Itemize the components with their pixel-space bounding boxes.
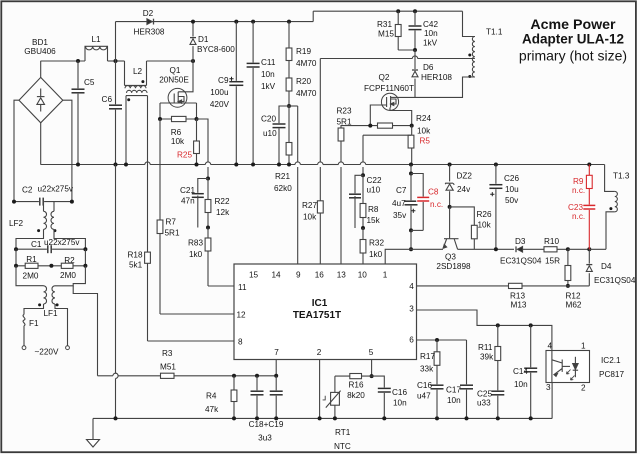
svg-text:2: 2 [317,348,322,357]
svg-text:n.c.: n.c. [572,212,585,221]
node sense chain bottom right [361,226,365,230]
svg-text:2SD1898: 2SD1898 [436,262,471,271]
node R12 top [566,247,570,251]
wire C6 line down to bottom ground rail [115,165,117,374]
wire T1.1 bottom lead to Q2 drain [397,77,475,97]
svg-text:LF1: LF1 [44,309,59,318]
svg-text:C14: C14 [513,367,528,376]
svg-text:u22x275v: u22x275v [38,185,74,194]
svg-text:BD1: BD1 [32,38,48,47]
capacitor C17 10n [466,340,468,418]
svg-text:R31: R31 [377,20,392,29]
svg-text:u33: u33 [477,399,491,408]
svg-text:Q1: Q1 [170,66,181,75]
polarity dot L2 top [141,80,144,83]
zener DZ2 24v [448,163,452,167]
Q2 mosfet symbol [381,93,398,110]
wire R83 to IC pin 11 [208,285,234,287]
wire R18 to IC pin 8 [147,263,149,341]
svg-text:1kV: 1kV [423,39,438,48]
svg-text:C25: C25 [477,390,492,399]
diode D6 HER108 [414,50,416,97]
svg-text:10k: 10k [171,137,185,146]
svg-text:C8: C8 [428,188,439,197]
wire bridge left AC lead [14,100,19,201]
wire Q1 drain entry [178,61,193,92]
wire HV rail y=21.6 D2 to step [116,21,314,23]
svg-text:R16: R16 [348,381,363,390]
svg-text:IC1: IC1 [312,298,328,309]
svg-text:D1: D1 [198,35,209,44]
inductor L1 [85,46,108,61]
choke L2 bottom winding [126,95,148,97]
polarity dot LF2 left [37,229,40,232]
svg-text:C23: C23 [568,203,583,212]
wire IC pin5 riser [371,360,373,377]
svg-text:R83: R83 [188,239,203,248]
wire L2 bottom-right lead down through R18 to pin 8 [147,96,149,253]
svg-text:NTC: NTC [334,442,351,451]
svg-text:9: 9 [296,271,301,280]
resistor R6 10k [160,118,197,120]
svg-text:4M70: 4M70 [296,59,317,68]
svg-text:R7: R7 [166,218,177,227]
capacitor C1 u22x275v [16,248,85,250]
svg-text:D2: D2 [143,9,154,18]
svg-text:35v: 35v [393,211,407,220]
svg-text:47k: 47k [205,405,219,414]
polarity dot T1.1 lower [468,75,471,78]
svg-text:C26: C26 [504,174,519,183]
svg-text:T1.3: T1.3 [613,172,630,181]
resistor R26 10k [450,207,475,249]
capacitor C16 10n [372,376,385,418]
svg-text:14: 14 [271,271,281,280]
wire LF1 left bottom to fuse [24,304,44,315]
fuse F1 [23,315,25,326]
wire y=61 bridge to Q1 drain node [41,60,86,62]
svg-text:D4: D4 [601,262,612,271]
svg-text:5: 5 [369,348,374,357]
opto phototransistor [561,360,563,372]
capacitor C8 n.c. [411,174,423,231]
wire left rail down to LF1 [16,266,44,286]
wire opto pin4 pin3 line [551,351,553,383]
resistor R24 10k [370,125,411,127]
wire T1.1 tap to x=320 riser [320,58,412,60]
resistor R23 5R1 [341,126,370,128]
svg-text:R4: R4 [206,392,217,401]
resistor R22 12k [207,179,209,228]
svg-text:100u: 100u [210,88,229,97]
svg-text:R19: R19 [296,47,311,56]
resistor R21 62k0 [288,106,290,165]
IC U1 TEA1751T box [234,264,417,360]
svg-text:R24: R24 [416,114,431,123]
polarity dot T1.1 upper [468,54,471,57]
svg-text:33k: 33k [420,365,434,374]
svg-text:M13: M13 [511,301,527,310]
svg-text:4: 4 [548,342,553,351]
wire primary ground bus y=164.5 [41,164,145,166]
choke LF2 [43,202,45,212]
wire Q2 gate [370,105,386,126]
capacitor C42 10n 1kV [414,11,416,50]
resistor R5 shunt [411,126,413,165]
wire T1.1 top lead [463,11,475,36]
svg-text:12: 12 [237,311,247,320]
wire F1 to terminal [23,326,25,346]
svg-text:R12: R12 [566,292,581,301]
resistor R16 8k20 [335,375,372,377]
resistor R19 4M70 [287,20,291,24]
svg-text:C6: C6 [102,95,113,104]
svg-text:L2: L2 [133,67,143,76]
svg-text:HER108: HER108 [421,73,452,82]
svg-text:RT1: RT1 [335,428,351,437]
wire bridge right AC lead [63,100,72,201]
svg-text:62k0: 62k0 [274,184,292,193]
resistor R7 5R1 gate line [159,119,161,314]
svg-text:R17: R17 [420,352,435,361]
wire right rail C1 to R1 row [84,249,86,266]
wire D2 branch riser x=115.5 [115,22,117,61]
svg-text:5R1: 5R1 [165,229,180,238]
svg-text:T1.1: T1.1 [486,28,503,37]
capacitor C16 u47 [430,384,445,389]
svg-text:u10: u10 [367,186,381,195]
wire node to IC pin 9 [289,105,298,107]
svg-text:10k: 10k [303,213,317,222]
svg-text:10n: 10n [424,29,438,38]
wire LF1 right bottom to terminal [55,304,68,346]
svg-text:50v: 50v [505,196,519,205]
polarity dot L2 bottom [127,98,130,101]
svg-text:D3: D3 [515,237,526,246]
svg-text:1k0: 1k0 [189,250,203,259]
svg-text:C11: C11 [261,58,276,67]
svg-text:3u3: 3u3 [258,434,272,443]
svg-text:13: 13 [337,271,347,280]
svg-text:15: 15 [249,271,259,280]
wire IC pin4 feedback rail [417,285,590,287]
wire gate line to IC pin 12 [160,313,234,315]
svg-text:2: 2 [581,384,586,393]
choke LF1 [44,286,47,304]
svg-text:4M70: 4M70 [296,89,317,98]
svg-text:n.c.: n.c. [572,186,585,195]
capacitor C20 u10 [279,106,289,165]
wire Q1 gate-source frame [160,102,197,104]
svg-text:8k20: 8k20 [347,391,365,400]
node R5 chain below bus [410,165,412,174]
red chain R9 n.c. [587,163,591,167]
svg-text:R1: R1 [26,255,37,264]
diode D4 EC31QS04 [588,249,590,286]
svg-text:5R1: 5R1 [337,118,352,127]
svg-text:10k: 10k [478,221,492,230]
svg-text:10u: 10u [505,185,519,194]
wire left rail C1 to R1 row [15,249,17,266]
polarity dot T1.3 [609,207,612,210]
svg-text:FCPF11N60T: FCPF11N60T [364,84,414,93]
node R4 top [232,374,236,378]
svg-text:R11: R11 [478,343,493,352]
svg-text:IC2.1: IC2.1 [601,356,621,365]
svg-text:L1: L1 [91,35,101,44]
svg-text:C17: C17 [446,386,461,395]
svg-text:primary (hot size): primary (hot size) [519,48,627,64]
wire R3 rail [98,375,113,377]
polarity dot LF1 left [38,303,41,306]
capacitor C25 u33 [490,390,505,395]
svg-text:C2: C2 [22,186,33,195]
svg-text:u47: u47 [417,392,431,401]
node R17 top [435,338,439,342]
node R11 top [496,323,500,327]
svg-text:8: 8 [238,338,243,347]
svg-text:GBU406: GBU406 [24,47,56,56]
choke L2 top winding [124,61,126,85]
svg-text:DZ2: DZ2 [457,172,473,181]
svg-text:11: 11 [238,283,247,292]
wire HV rail step up [312,11,314,21]
svg-text:BYC8-600: BYC8-600 [197,45,235,54]
svg-text:C18+C19: C18+C19 [249,420,284,429]
svg-text:C16: C16 [417,381,432,390]
svg-text:2M0: 2M0 [60,271,76,280]
node L1 right junction [114,59,118,63]
svg-text:R22: R22 [215,197,230,206]
capacitor C5 [77,61,79,165]
resistor R11 39k [497,325,499,418]
svg-text:Q2: Q2 [379,73,390,82]
wire IC pin3 to opto rail [417,310,552,351]
resistor R3 M51 [161,373,175,378]
node sense chain top [206,177,210,181]
svg-text:C7: C7 [396,186,407,195]
resistor R32 1k0 [362,228,364,264]
diode D2 HER308 [147,19,152,25]
svg-text:R27: R27 [302,201,317,210]
svg-text:C21: C21 [180,186,195,195]
resistor R12 M62 [567,249,569,286]
wire R23 to IC pin 13 [340,141,342,162]
resistor R18 5k1 [145,252,151,263]
svg-text:R32: R32 [369,239,384,248]
svg-text:M62: M62 [566,301,582,310]
svg-text:R25: R25 [177,151,192,160]
node sense chain top right [361,173,365,177]
svg-text:5k1: 5k1 [129,261,143,270]
svg-text:16: 16 [315,271,325,280]
optocoupler IC2.1 PC817 box [546,351,590,383]
svg-text:47n: 47n [181,197,195,206]
svg-text:u10: u10 [263,129,277,138]
svg-text:TEA1751T: TEA1751T [293,310,341,321]
ground symbol [92,418,94,439]
svg-text:M51: M51 [160,363,176,372]
wire Vcc rail Q3 collector east [458,248,514,250]
wire IC pin7 riser [275,360,277,376]
capacitor C7 4u7 35v [410,174,412,231]
Q1 mosfet symbol [168,88,187,107]
resistor R31 M15 [397,11,399,50]
red capacitor C23 n.c. [582,205,596,210]
wire source sense to C21 R22 chain [197,119,209,162]
resistor R2 2M0 [51,265,85,267]
resistor R27 10k pin16 line [319,59,321,163]
wire R31 bottom to C42 bottom [398,49,415,51]
svg-text:10n: 10n [447,396,461,405]
svg-text:1k0: 1k0 [369,250,383,259]
wire LF2 right bottom jog to C1 row [54,229,85,249]
svg-text:C5: C5 [84,78,95,87]
node C7 C8 bottom [409,228,413,232]
svg-text:R23: R23 [337,107,352,116]
svg-text:R3: R3 [162,349,173,358]
svg-text:3: 3 [546,383,551,392]
svg-text:R13: R13 [510,292,525,301]
node VCC divider [287,104,291,108]
svg-text:7: 7 [274,348,279,357]
wire bottom ground rail y=418.4 [93,417,552,419]
svg-text:LF2: LF2 [9,219,24,228]
node C18 top [255,374,259,378]
svg-text:6: 6 [409,336,414,345]
node top-left junction [76,59,80,63]
diode D1 BYC8-600 [192,22,194,61]
svg-text:C16: C16 [392,388,407,397]
node sense chain bottom [206,226,210,230]
capacitor C6 [115,61,117,165]
svg-text:u22x275v: u22x275v [44,238,80,247]
opto LED [574,357,576,377]
svg-text:4u7: 4u7 [392,199,406,208]
svg-text:C42: C42 [423,20,438,29]
svg-text:C22: C22 [367,176,382,185]
svg-text:~220V: ~220V [35,348,59,357]
resistor R20 4M70 [286,78,292,91]
svg-text:10k: 10k [417,127,431,136]
resistor R4 47k [233,376,235,419]
capacitor C2 u22x275v [14,201,72,203]
polarity dot LF1 right [56,303,59,306]
svg-text:39k: 39k [480,353,494,362]
svg-text:10: 10 [358,271,368,280]
wire IC pin6 rail [417,339,467,341]
polarity dot LF2 right [53,229,56,232]
svg-text:3: 3 [409,305,414,314]
capacitor C22 u10 [355,175,363,196]
transistor Q3 2SD1898 [449,207,451,238]
wire IC pin2 ground [319,360,321,419]
svg-text:R8: R8 [368,205,379,214]
wire Q2 source to node [390,108,412,126]
svg-text:R18: R18 [128,251,143,260]
svg-text:n.c.: n.c. [430,200,443,209]
terminal circle right [66,346,70,350]
svg-text:R10: R10 [544,237,559,246]
resistor R1 2M0 [16,265,51,267]
wire right rail down to LF1 and tap [55,266,85,286]
svg-text:EC31QS04: EC31QS04 [594,276,636,285]
svg-text:420V: 420V [210,100,230,109]
svg-text:4: 4 [409,282,414,291]
resistor R8 15k [362,175,364,228]
wire C7 node to Vcc rail [410,230,412,249]
capacitor C11 10n 1kV [251,20,255,24]
svg-text:D6: D6 [423,63,434,72]
svg-text:15k: 15k [367,216,381,225]
diode D3 EC31QS04 [517,246,522,252]
svg-text:R21: R21 [275,172,290,181]
transformer T1.1 winding [472,37,475,78]
svg-text:R2: R2 [64,256,75,265]
opto light arrows [567,370,571,375]
capacitor C19 [275,376,277,419]
svg-text:10n: 10n [514,380,528,389]
wire source sense to C22 R8 chain [363,134,411,136]
svg-text:C9: C9 [218,76,229,85]
svg-text:M15: M15 [378,30,394,39]
svg-text:C20: C20 [261,115,276,124]
svg-text:EC31QS04: EC31QS04 [500,257,542,266]
capacitor C21 47n [198,179,208,196]
svg-text:F1: F1 [29,319,39,328]
svg-text:15R: 15R [545,257,560,266]
svg-text:R20: R20 [296,77,311,86]
wire L2 bottom-left lead to ground bus [125,96,127,165]
wire bridge bottom vertex to ground bus [40,123,42,165]
terminal circle left [22,346,26,350]
svg-text:12k: 12k [216,208,230,217]
svg-text:10n: 10n [261,70,275,79]
capacitor C14 10n [530,325,532,418]
wire LF2 left bottom jog to C1 row [16,229,44,249]
svg-text:R6: R6 [171,128,182,137]
resistor R83 1k0 [207,228,209,287]
node Q3 base [448,205,452,209]
thermistor RT1 NTC [334,376,336,418]
svg-text:R26: R26 [477,210,492,219]
transformer T1.3 winding [605,165,615,192]
bridge rectifier BD1 GBU406 [19,77,63,122]
node C19 top pin7 [274,374,278,378]
svg-text:C1: C1 [31,240,42,249]
svg-text:HER308: HER308 [134,28,165,37]
node C14 top [529,323,533,327]
svg-text:R9: R9 [573,177,584,186]
resistor R13 M13 [509,283,523,288]
resistor R17 33k [436,340,438,418]
wire HV rail y=11.2 [313,10,462,12]
svg-text:PC817: PC817 [599,370,624,379]
node D1 bottom Q1 drain [191,59,195,63]
capacitor C26 10u 50v [494,163,498,167]
svg-text:Adapter ULA-12: Adapter ULA-12 [522,32,624,47]
svg-text:10n: 10n [393,399,407,408]
wire to D4 and T1.3 [568,248,589,250]
node clamp bottom [413,48,417,52]
svg-text:1: 1 [383,271,388,280]
capacitor C9 100u 420V [234,20,238,24]
wire bridge top vertex to node [40,61,42,77]
resistor R25 shunt [196,119,198,165]
svg-text:24v: 24v [457,185,471,194]
wire clamp top [396,9,400,13]
resistor R10 15R [523,248,568,250]
